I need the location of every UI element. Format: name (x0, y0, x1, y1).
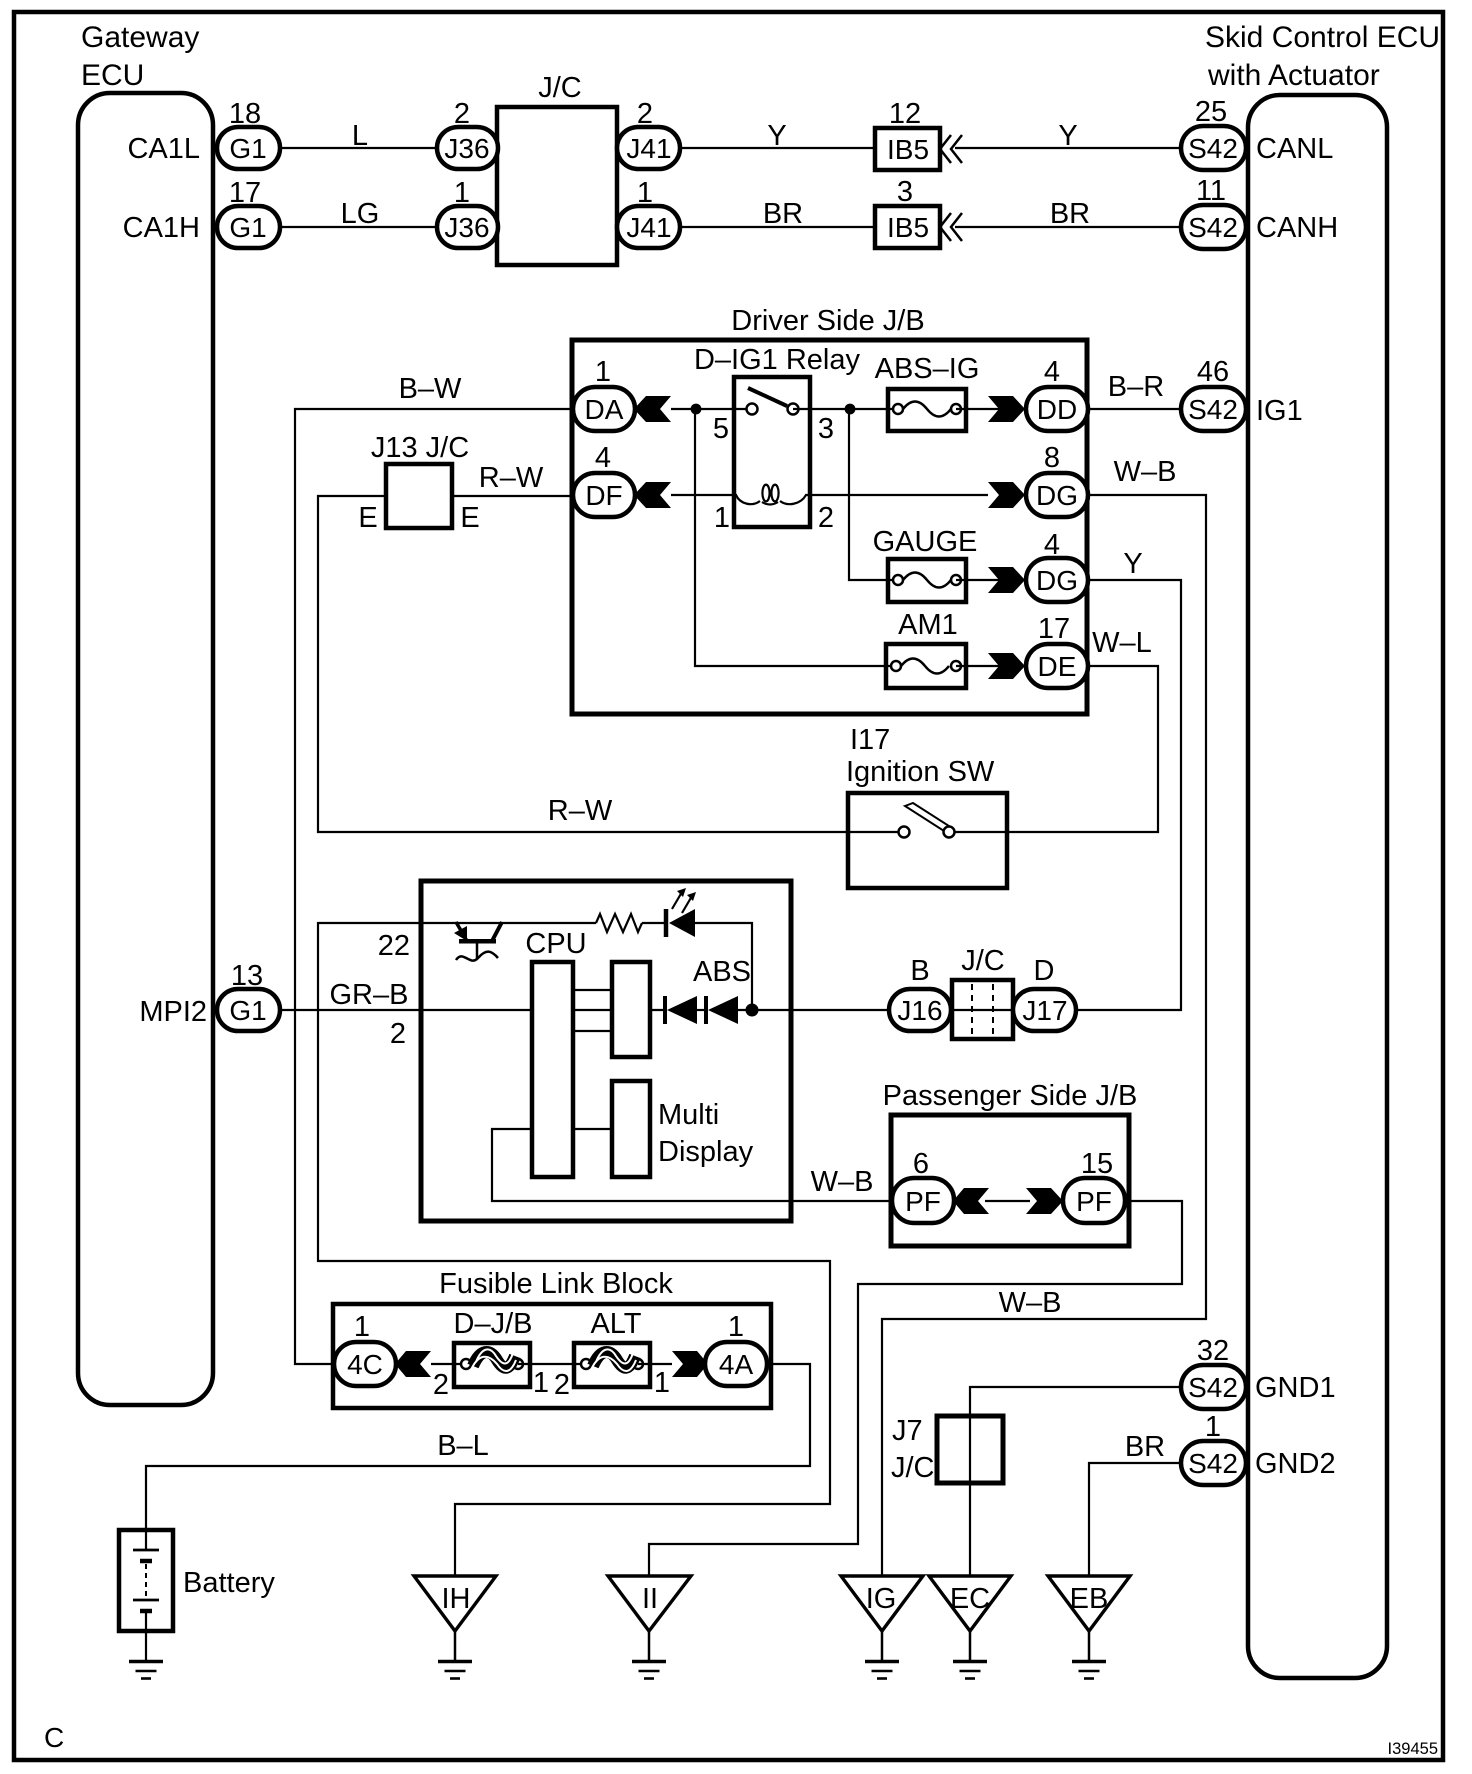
connector J17 pin D (1013, 955, 1076, 1031)
wire CANL row: G1 to J36 (280, 147, 437, 149)
svg-text:17: 17 (229, 177, 261, 209)
svg-text:R–W: R–W (479, 462, 544, 494)
chevrons at IB5 pin 12 (940, 135, 962, 163)
svg-text:J16: J16 (897, 995, 942, 1026)
wire Y: DG4 to J17 (1076, 580, 1181, 1010)
ground below EC (953, 1630, 987, 1679)
wire junction to AM1 fuse (695, 409, 896, 666)
svg-text:PF: PF (905, 1186, 941, 1217)
svg-text:D: D (1034, 955, 1055, 987)
svg-text:J7: J7 (892, 1415, 923, 1447)
svg-text:J17: J17 (1022, 995, 1067, 1026)
svg-text:1: 1 (1205, 1411, 1221, 1443)
svg-text:LG: LG (341, 198, 380, 230)
wire W-B: DG8 to IG ground triangle (882, 495, 1206, 1576)
wire CANH row: G1 to J36 (280, 226, 437, 228)
svg-text:1: 1 (728, 1311, 744, 1343)
svg-text:J36: J36 (444, 212, 489, 243)
Driver Side J/B box (572, 340, 1087, 714)
connector DA pin 1 (573, 356, 635, 431)
svg-text:CA1H: CA1H (123, 212, 200, 244)
svg-text:17: 17 (1038, 613, 1070, 645)
LED ABS warning light (666, 888, 696, 937)
svg-text:AM1: AM1 (898, 609, 958, 641)
wire GR-B: G1 MPI2 to CPU (280, 1009, 532, 1011)
svg-text:IB5: IB5 (887, 134, 929, 165)
svg-text:E: E (358, 502, 377, 534)
connector IB5 pin 3 (875, 176, 940, 248)
svg-text:IG1: IG1 (1256, 395, 1303, 427)
Multi Display block (612, 1081, 650, 1177)
wire B-L: 4A to battery (146, 1364, 810, 1530)
svg-text:G1: G1 (229, 212, 266, 243)
wire ABS-IG to DD (956, 408, 1026, 410)
ground triangle II (608, 1576, 691, 1631)
fuse AM1 (886, 609, 966, 688)
svg-text:ABS–IG: ABS–IG (875, 353, 980, 385)
svg-text:1: 1 (354, 1311, 370, 1343)
junction node diodes/LED (746, 1004, 759, 1017)
Gateway ECU block (78, 93, 213, 1405)
connector G1 pin 17 (217, 177, 280, 248)
svg-text:IG: IG (866, 1583, 897, 1615)
CPU block (532, 962, 573, 1177)
svg-text:I17: I17 (850, 724, 890, 756)
diode D2 (706, 996, 738, 1024)
svg-text:E: E (460, 502, 479, 534)
svg-text:D–J/B: D–J/B (454, 1308, 533, 1340)
wire transistor to resistor (455, 922, 596, 924)
ground below battery (129, 1662, 163, 1679)
arrow into PF6 (953, 1188, 989, 1214)
svg-text:4: 4 (1044, 356, 1060, 388)
svg-text:S42: S42 (1188, 212, 1238, 243)
svg-text:DG: DG (1036, 480, 1078, 511)
svg-text:1: 1 (454, 177, 470, 209)
ground below EB (1072, 1630, 1106, 1679)
wire D1 to D2 (697, 1009, 708, 1011)
D-IG1 Relay box (734, 377, 810, 527)
resistor (ABS lamp) (596, 914, 642, 932)
connector IB5 pin 12 (875, 98, 940, 170)
svg-text:with Actuator: with Actuator (1207, 59, 1380, 92)
svg-text:Passenger Side J/B: Passenger Side J/B (883, 1080, 1138, 1112)
wire diode junction to J16 (738, 1009, 889, 1011)
svg-text:3: 3 (818, 413, 834, 445)
arrow into DF (634, 482, 671, 508)
CPU to ABS block stubs (573, 989, 612, 991)
svg-text:D–IG1 Relay: D–IG1 Relay (694, 344, 861, 376)
svg-text:13: 13 (231, 960, 263, 992)
connector S42 pin 11 (1181, 175, 1246, 249)
svg-text:EB: EB (1070, 1583, 1109, 1615)
fuse GAUGE (873, 526, 978, 602)
arrow into 4A (672, 1351, 708, 1377)
svg-text:18: 18 (229, 98, 261, 130)
Ignition SW box (848, 793, 1007, 888)
wire ALT to 4A (638, 1363, 672, 1365)
wire resistor to LED (642, 922, 666, 924)
junction box J7 J/C (891, 1415, 1003, 1484)
connector 4A pin 1 (705, 1311, 767, 1386)
connector DG pin 8 (1026, 442, 1088, 517)
wire relay to ABS-IG fuse (793, 408, 898, 410)
wire CANL row: IB5 to S42 (955, 147, 1181, 149)
relay switch contact left (747, 404, 758, 415)
fusible link ALT (574, 1308, 650, 1387)
connector DG pin 4 (1026, 529, 1088, 602)
svg-text:BR: BR (1125, 1431, 1165, 1463)
battery (119, 1530, 173, 1661)
svg-text:8: 8 (1044, 442, 1060, 474)
wire W-L: DE to ignition switch (954, 666, 1158, 832)
relay switch lever (748, 388, 787, 406)
svg-text:Multi: Multi (658, 1099, 719, 1131)
svg-text:5: 5 (713, 413, 729, 445)
svg-text:Driver Side J/B: Driver Side J/B (731, 305, 924, 337)
ignition switch lever (905, 803, 949, 831)
wire B-R: DD to S42 IG1 (1088, 408, 1181, 410)
svg-text:L: L (352, 120, 368, 152)
wire junction to GAUGE fuse (849, 409, 898, 580)
relay switch contact right (788, 404, 799, 415)
wire meter pin 22 to IH ground (via left vertical) (318, 923, 830, 1576)
svg-text:2: 2 (390, 1018, 406, 1050)
arrow into DG pin 4 (988, 567, 1025, 593)
junction box J/C (J36/J41) (497, 107, 617, 265)
svg-text:S42: S42 (1188, 394, 1238, 425)
connector J41 pin 1 (617, 177, 680, 248)
wire R-W: J13 to ignition switch (318, 496, 901, 832)
svg-text:1: 1 (533, 1367, 549, 1399)
arrow into DA (634, 396, 671, 422)
CPU to Multi Display stub (573, 1128, 612, 1130)
junction node at DA wire (691, 404, 702, 415)
svg-text:S42: S42 (1188, 1448, 1238, 1479)
Combination meter box (421, 881, 791, 1221)
svg-text:W–B: W–B (1114, 456, 1177, 488)
svg-text:25: 25 (1195, 96, 1227, 128)
arrow into PF15 (1026, 1188, 1063, 1214)
wire W-B: CPU to PF6 (492, 1129, 892, 1201)
svg-text:J13 J/C: J13 J/C (371, 432, 469, 464)
svg-text:I39455: I39455 (1388, 1740, 1438, 1758)
svg-text:S42: S42 (1188, 133, 1238, 164)
wire 4C arrow to D-J/B link (431, 1363, 466, 1365)
svg-text:DG: DG (1036, 565, 1078, 596)
svg-text:Battery: Battery (183, 1567, 275, 1599)
transistor Q (ABS lamp driver) (454, 922, 502, 961)
Fusible Link Block box (333, 1304, 771, 1408)
arrow into DE (988, 653, 1025, 679)
ground triangle EB (1048, 1576, 1130, 1631)
svg-text:GAUGE: GAUGE (873, 526, 978, 558)
wire DA arrow to relay (671, 408, 752, 410)
svg-text:C: C (44, 1722, 64, 1753)
svg-text:Y: Y (1123, 548, 1142, 580)
svg-text:Display: Display (658, 1136, 754, 1168)
svg-text:CA1L: CA1L (127, 133, 200, 165)
svg-text:J41: J41 (626, 212, 671, 243)
svg-text:12: 12 (889, 98, 921, 130)
svg-text:EC: EC (950, 1583, 990, 1615)
svg-text:Fusible Link Block: Fusible Link Block (439, 1268, 673, 1300)
connector DF pin 4 (573, 442, 635, 517)
svg-text:B–L: B–L (437, 1430, 489, 1462)
connector G1 pin 18 (217, 98, 280, 169)
chevrons at IB5 pin 3 (940, 213, 962, 241)
svg-text:B–R: B–R (1108, 371, 1164, 403)
svg-text:BR: BR (763, 198, 803, 230)
wire between PF arrows (985, 1200, 1030, 1202)
wire D-J/B to ALT (518, 1363, 586, 1365)
Skid Control ECU with Actuator block (1248, 95, 1387, 1678)
svg-text:W–L: W–L (1092, 627, 1152, 659)
svg-text:2: 2 (554, 1369, 570, 1401)
junction box J13 J/C (386, 464, 452, 528)
svg-text:Gateway: Gateway (81, 21, 199, 54)
svg-text:II: II (642, 1583, 658, 1615)
arrow into DD (988, 396, 1025, 422)
svg-text:4: 4 (1044, 529, 1060, 561)
svg-text:1: 1 (654, 1367, 670, 1399)
svg-text:11: 11 (1196, 175, 1226, 207)
ABS driver block (612, 962, 650, 1057)
svg-text:22: 22 (378, 930, 410, 962)
svg-text:3: 3 (897, 176, 913, 208)
ground below IH (438, 1630, 472, 1679)
wire CANH row: IB5 to S42 (955, 226, 1181, 228)
ground triangle IH (414, 1576, 496, 1631)
svg-text:DA: DA (585, 394, 624, 425)
wire LED to diode junction (695, 923, 752, 1010)
svg-text:DF: DF (585, 480, 622, 511)
svg-text:J36: J36 (444, 133, 489, 164)
svg-text:B: B (910, 955, 929, 987)
svg-text:Y: Y (1058, 120, 1077, 152)
connector S42 pin 32 (1181, 1335, 1246, 1409)
svg-text:DE: DE (1038, 651, 1077, 682)
ignition switch contact right (944, 827, 955, 838)
svg-text:PF: PF (1076, 1186, 1112, 1217)
ground triangle IG (841, 1576, 923, 1631)
diode D1 (665, 996, 697, 1024)
svg-text:R–W: R–W (548, 795, 613, 827)
connector J36 pin 2 (437, 98, 498, 169)
svg-text:Skid Control ECU: Skid Control ECU (1205, 21, 1440, 54)
svg-text:CPU: CPU (525, 928, 586, 960)
svg-text:1: 1 (714, 502, 730, 534)
connector PF pin 6 (892, 1148, 954, 1223)
wire CANH row: J41 to IB5 (680, 226, 875, 228)
relay coil (736, 495, 760, 504)
svg-text:BR: BR (1050, 198, 1090, 230)
wire ABS block to diode D1 (650, 1009, 667, 1011)
connector DD pin 4 (1026, 356, 1088, 431)
ground below II (632, 1630, 666, 1679)
svg-text:2: 2 (818, 502, 834, 534)
junction box J/C (J16/J17) (951, 945, 1013, 1039)
svg-text:GND1: GND1 (1255, 1372, 1336, 1404)
svg-text:J/C: J/C (891, 1452, 935, 1484)
svg-text:32: 32 (1197, 1335, 1229, 1367)
fuse ABS-IG (875, 353, 980, 431)
svg-text:J41: J41 (626, 133, 671, 164)
svg-text:S42: S42 (1188, 1372, 1238, 1403)
connector J16 pin B (889, 955, 951, 1031)
svg-text:2: 2 (637, 98, 653, 130)
ground triangle EC (929, 1576, 1011, 1631)
svg-text:46: 46 (1197, 356, 1229, 388)
svg-text:Y: Y (767, 120, 786, 152)
svg-text:4C: 4C (347, 1349, 383, 1380)
ground below IG (865, 1630, 899, 1679)
svg-text:4A: 4A (719, 1349, 754, 1380)
svg-text:6: 6 (913, 1148, 929, 1180)
svg-text:GR–B: GR–B (330, 979, 409, 1011)
svg-text:W–B: W–B (811, 1166, 874, 1198)
svg-text:ALT: ALT (590, 1308, 641, 1340)
wire DF arrow through relay coil row (671, 494, 737, 496)
connector PF pin 15 (1063, 1148, 1125, 1223)
svg-text:MPI2: MPI2 (139, 996, 207, 1028)
connector DE pin 17 (1026, 613, 1088, 688)
wire PF15 to II ground triangle (649, 1201, 1182, 1576)
svg-text:W–B: W–B (999, 1287, 1062, 1319)
svg-text:J/C: J/C (961, 945, 1005, 977)
wire GAUGE to DG (956, 579, 1026, 581)
svg-text:2: 2 (454, 98, 470, 130)
svg-text:ABS: ABS (693, 956, 751, 988)
svg-text:1: 1 (637, 177, 653, 209)
connector S42 pin 25 (1181, 96, 1246, 170)
connector S42 pin 1 (1181, 1411, 1246, 1485)
svg-text:CANH: CANH (1256, 212, 1338, 244)
ignition switch contact left (899, 827, 910, 838)
svg-text:G1: G1 (229, 133, 266, 164)
svg-text:15: 15 (1081, 1148, 1113, 1180)
connector 4C pin 1 (334, 1311, 396, 1386)
svg-text:B–W: B–W (399, 373, 462, 405)
wire GND1: S42 to EC via J7 (970, 1387, 1181, 1576)
connector J36 pin 1 (437, 177, 498, 248)
connector G1 pin 13 (MPI2) (217, 960, 280, 1031)
svg-text:J/C: J/C (538, 72, 582, 104)
junction node right of relay (845, 404, 856, 415)
wire B-W: DA to 4C via left vertical (295, 409, 572, 1364)
svg-text:CANL: CANL (1256, 133, 1333, 165)
svg-text:IH: IH (442, 1583, 471, 1615)
svg-text:4: 4 (595, 442, 611, 474)
svg-text:ECU: ECU (81, 59, 144, 92)
svg-text:IB5: IB5 (887, 212, 929, 243)
fusible link D-J/B (454, 1308, 533, 1387)
wire R-W: DF to J13 (452, 495, 572, 497)
arrow into 4C (395, 1351, 431, 1377)
wire CANL row: J41 to IB5 (680, 147, 875, 149)
connector S42 pin 46 (1181, 356, 1246, 431)
svg-text:DD: DD (1037, 394, 1077, 425)
connector J41 pin 2 (617, 98, 680, 169)
wire BR: S42 GND2 to EB (1089, 1463, 1181, 1576)
svg-text:G1: G1 (229, 995, 266, 1026)
wire AM1 to DE (956, 665, 1026, 667)
svg-text:GND2: GND2 (1255, 1448, 1336, 1480)
arrow into DG pin 8 (988, 482, 1025, 508)
Passenger Side J/B box (891, 1115, 1129, 1246)
svg-text:1: 1 (595, 356, 611, 388)
svg-text:Ignition SW: Ignition SW (846, 756, 995, 788)
svg-text:2: 2 (433, 1369, 449, 1401)
